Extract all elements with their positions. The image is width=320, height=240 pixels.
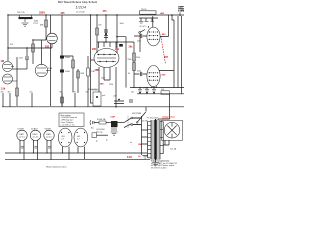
- svg-text:pin 4,5: pin 4,5: [19, 136, 24, 138]
- capacitor comb network: [139, 18, 158, 52]
- svg-text:fuse 2A: fuse 2A: [170, 147, 177, 150]
- node junction dots: [32, 39, 33, 40]
- resistor 10k: [161, 89, 170, 94]
- line filter: [96, 116, 124, 136]
- wire: [62, 56, 73, 92]
- svg-text:220k: 220k: [109, 84, 113, 86]
- svg-text:CAP: CAP: [111, 116, 116, 119]
- svg-text:20uF: 20uF: [65, 71, 71, 73]
- wire long: [50, 15, 52, 106]
- wire switch to primary: [133, 116, 142, 152]
- svg-text:20uF: 20uF: [65, 57, 71, 59]
- capacitor electrolytic: [60, 56, 71, 60]
- output tube V5: [147, 65, 160, 86]
- filter cap: [138, 88, 142, 94]
- capacitor C1: [19, 57, 30, 69]
- svg-text:220k: 220k: [101, 78, 105, 80]
- svg-text:M8.2kx2: M8.2kx2: [92, 90, 99, 92]
- wires tube legs: [99, 67, 116, 107]
- mains plug symbol: [90, 120, 99, 125]
- ground: [22, 23, 29, 26]
- wire node row: [97, 41, 134, 43]
- svg-text:1k 5W: 1k 5W: [142, 120, 148, 122]
- svg-text:.047: .047: [113, 96, 117, 98]
- svg-text:220k: 220k: [137, 70, 141, 72]
- wire grid: [12, 68, 27, 70]
- resistor 68k: [40, 15, 47, 40]
- ground bus: [2, 106, 184, 108]
- svg-text:rev of web: rev of web: [76, 10, 85, 13]
- svg-text:V6 5Y3GT rectifier: V6 5Y3GT rectifier: [151, 167, 167, 170]
- capacitor coupling: [134, 72, 147, 76]
- resistor 56k: [72, 60, 75, 68]
- svg-text:pin 4,5: pin 4,5: [46, 136, 51, 138]
- resistor: [32, 44, 35, 52]
- svg-text:220k: 220k: [136, 57, 140, 59]
- svg-text:820: 820: [73, 91, 76, 93]
- bus stubs: [3, 93, 88, 107]
- wire: [158, 94, 170, 120]
- svg-text:1/2O4: 1/2O4: [76, 6, 87, 10]
- wire: [7, 15, 9, 61]
- svg-text:pin 4,5: pin 4,5: [33, 136, 38, 138]
- capacitor: [116, 36, 126, 88]
- filter cap: [145, 88, 156, 94]
- resistor 1.5k: [87, 56, 96, 93]
- screen rail double wire: [130, 88, 184, 94]
- svg-text:29x: 29x: [129, 46, 134, 49]
- svg-text:line cap: line cap: [96, 131, 103, 133]
- wire: [8, 44, 52, 56]
- fuse: [97, 118, 111, 124]
- svg-text:293: 293: [45, 46, 50, 49]
- svg-text:47k: 47k: [10, 44, 13, 46]
- tube V2a: [35, 64, 52, 76]
- ground left: [142, 152, 149, 159]
- power transformer T1: [142, 118, 164, 166]
- center tap ground: [155, 160, 157, 162]
- op tube V3 phase inverter: [94, 42, 119, 68]
- svg-text:5E3 Tweed Deluxe Amp Schem: 5E3 Tweed Deluxe Amp Schem: [58, 1, 97, 4]
- tube V2b: [45, 33, 57, 48]
- svg-text:FUSE 2A: FUSE 2A: [97, 118, 106, 121]
- svg-text:.02: .02: [128, 73, 131, 75]
- note box: [59, 113, 84, 127]
- wires below box: [163, 140, 169, 145]
- junction dots node row: [105, 41, 107, 43]
- jack tip dot: [96, 96, 98, 98]
- svg-text:261: 261: [115, 48, 120, 51]
- svg-text:jack: jack: [101, 95, 105, 97]
- resistor 47k: [96, 28, 99, 35]
- tube V1a: [3, 62, 15, 72]
- socket V1: [17, 127, 27, 159]
- wire: [61, 15, 63, 106]
- svg-text:250k: 250k: [128, 59, 132, 61]
- svg-text:6.3V: 6.3V: [127, 156, 132, 159]
- junction dots: [19, 152, 20, 153]
- svg-text:68k: 68k: [60, 91, 63, 93]
- svg-text:SW PWR: SW PWR: [132, 113, 142, 115]
- AC receptacle box: [162, 120, 183, 140]
- resistor cathode: [16, 88, 19, 96]
- heater wire B: [5, 158, 150, 160]
- capacitor coupling: [134, 34, 147, 38]
- heater wire A: [5, 152, 147, 154]
- resistor 5k choke on B+ wire: [133, 9, 184, 16]
- resistor trim pot R1: [17, 12, 39, 25]
- wire plate: [41, 40, 43, 64]
- svg-text:V1 AX7: V1 AX7: [18, 127, 26, 130]
- svg-text:Heater filament wires: Heater filament wires: [46, 165, 67, 168]
- component box: [93, 92, 101, 106]
- svg-text:.02 .04 .1: .02 .04 .1: [139, 26, 147, 28]
- red annotation line: [161, 36, 166, 64]
- svg-text:250: 250: [86, 91, 89, 93]
- svg-text:4k7: 4k7: [8, 91, 11, 93]
- output tube V4: [147, 27, 160, 46]
- svg-text:1.5k: 1.5k: [1, 88, 6, 91]
- wire: [116, 15, 118, 53]
- svg-text:120/240V: 120/240V: [162, 118, 171, 120]
- socket V3: [44, 127, 54, 159]
- wire: [33, 40, 46, 64]
- svg-text:POT: POT: [34, 23, 39, 25]
- cap on bus 2: [130, 99, 132, 103]
- svg-text:267: 267: [164, 56, 169, 59]
- svg-text:V3 AX7: V3 AX7: [45, 127, 53, 130]
- svg-text:220k: 220k: [137, 41, 141, 43]
- wire speaker: [177, 16, 179, 88]
- socket V2: [30, 127, 40, 159]
- svg-text:16u: 16u: [131, 91, 134, 93]
- svg-text:1M: 1M: [1, 60, 4, 63]
- socket V4 octal: [58, 128, 72, 159]
- tube complement text: [151, 159, 177, 169]
- svg-text:47k: 47k: [98, 24, 101, 26]
- title block: [58, 1, 97, 15]
- wire plates to OT: [149, 15, 175, 88]
- socket V5 octal: [74, 128, 88, 159]
- svg-text:TR 2.2k: TR 2.2k: [17, 12, 26, 14]
- svg-text:265: 265: [92, 48, 97, 51]
- junction dots B+ wire: [96, 14, 97, 15]
- svg-text:1W: 1W: [1, 91, 4, 93]
- switch standby: [138, 107, 146, 122]
- svg-text:10k: 10k: [161, 89, 164, 91]
- svg-text:- use 1W CC res: - use 1W CC res: [61, 123, 75, 126]
- junction dot bus: [115, 106, 117, 108]
- ground lug: [92, 133, 97, 138]
- resistor 250k b: [133, 63, 136, 71]
- svg-text:2,7: 2,7: [77, 139, 80, 141]
- wire cathode: [16, 57, 18, 106]
- switch SW1 power: [124, 113, 142, 128]
- cap on bus: [114, 99, 124, 104]
- wire screen rail: [181, 16, 183, 94]
- tube V1b: [3, 74, 18, 84]
- svg-text:PT 325-0-325: PT 325-0-325: [147, 118, 159, 120]
- wire grid feed: [91, 15, 95, 103]
- capacitor electrolytic: [60, 70, 71, 74]
- capacitor: [104, 30, 108, 38]
- wire: [133, 42, 135, 88]
- svg-text:25u: 25u: [30, 91, 33, 93]
- output transformer label block: [178, 6, 186, 16]
- resistor cathode pair: [77, 69, 85, 93]
- svg-text:2,7: 2,7: [62, 139, 65, 141]
- switch tone: [139, 32, 141, 34]
- resistor 250k: [133, 53, 136, 61]
- wire: [105, 15, 107, 42]
- svg-text:325V: 325V: [39, 11, 45, 15]
- resistor on stub: [61, 97, 64, 103]
- wire: [96, 15, 98, 53]
- svg-text:471: 471: [103, 10, 108, 13]
- main B+ top wire: [8, 14, 133, 16]
- svg-text:V2 AX7: V2 AX7: [31, 127, 39, 130]
- primary tap bus: [142, 122, 148, 158]
- svg-text:8 OHM: 8 OHM: [178, 11, 184, 13]
- junction dots rail: [139, 87, 140, 88]
- secondary taps: [160, 122, 163, 154]
- svg-text:TB 5k: TB 5k: [141, 9, 147, 11]
